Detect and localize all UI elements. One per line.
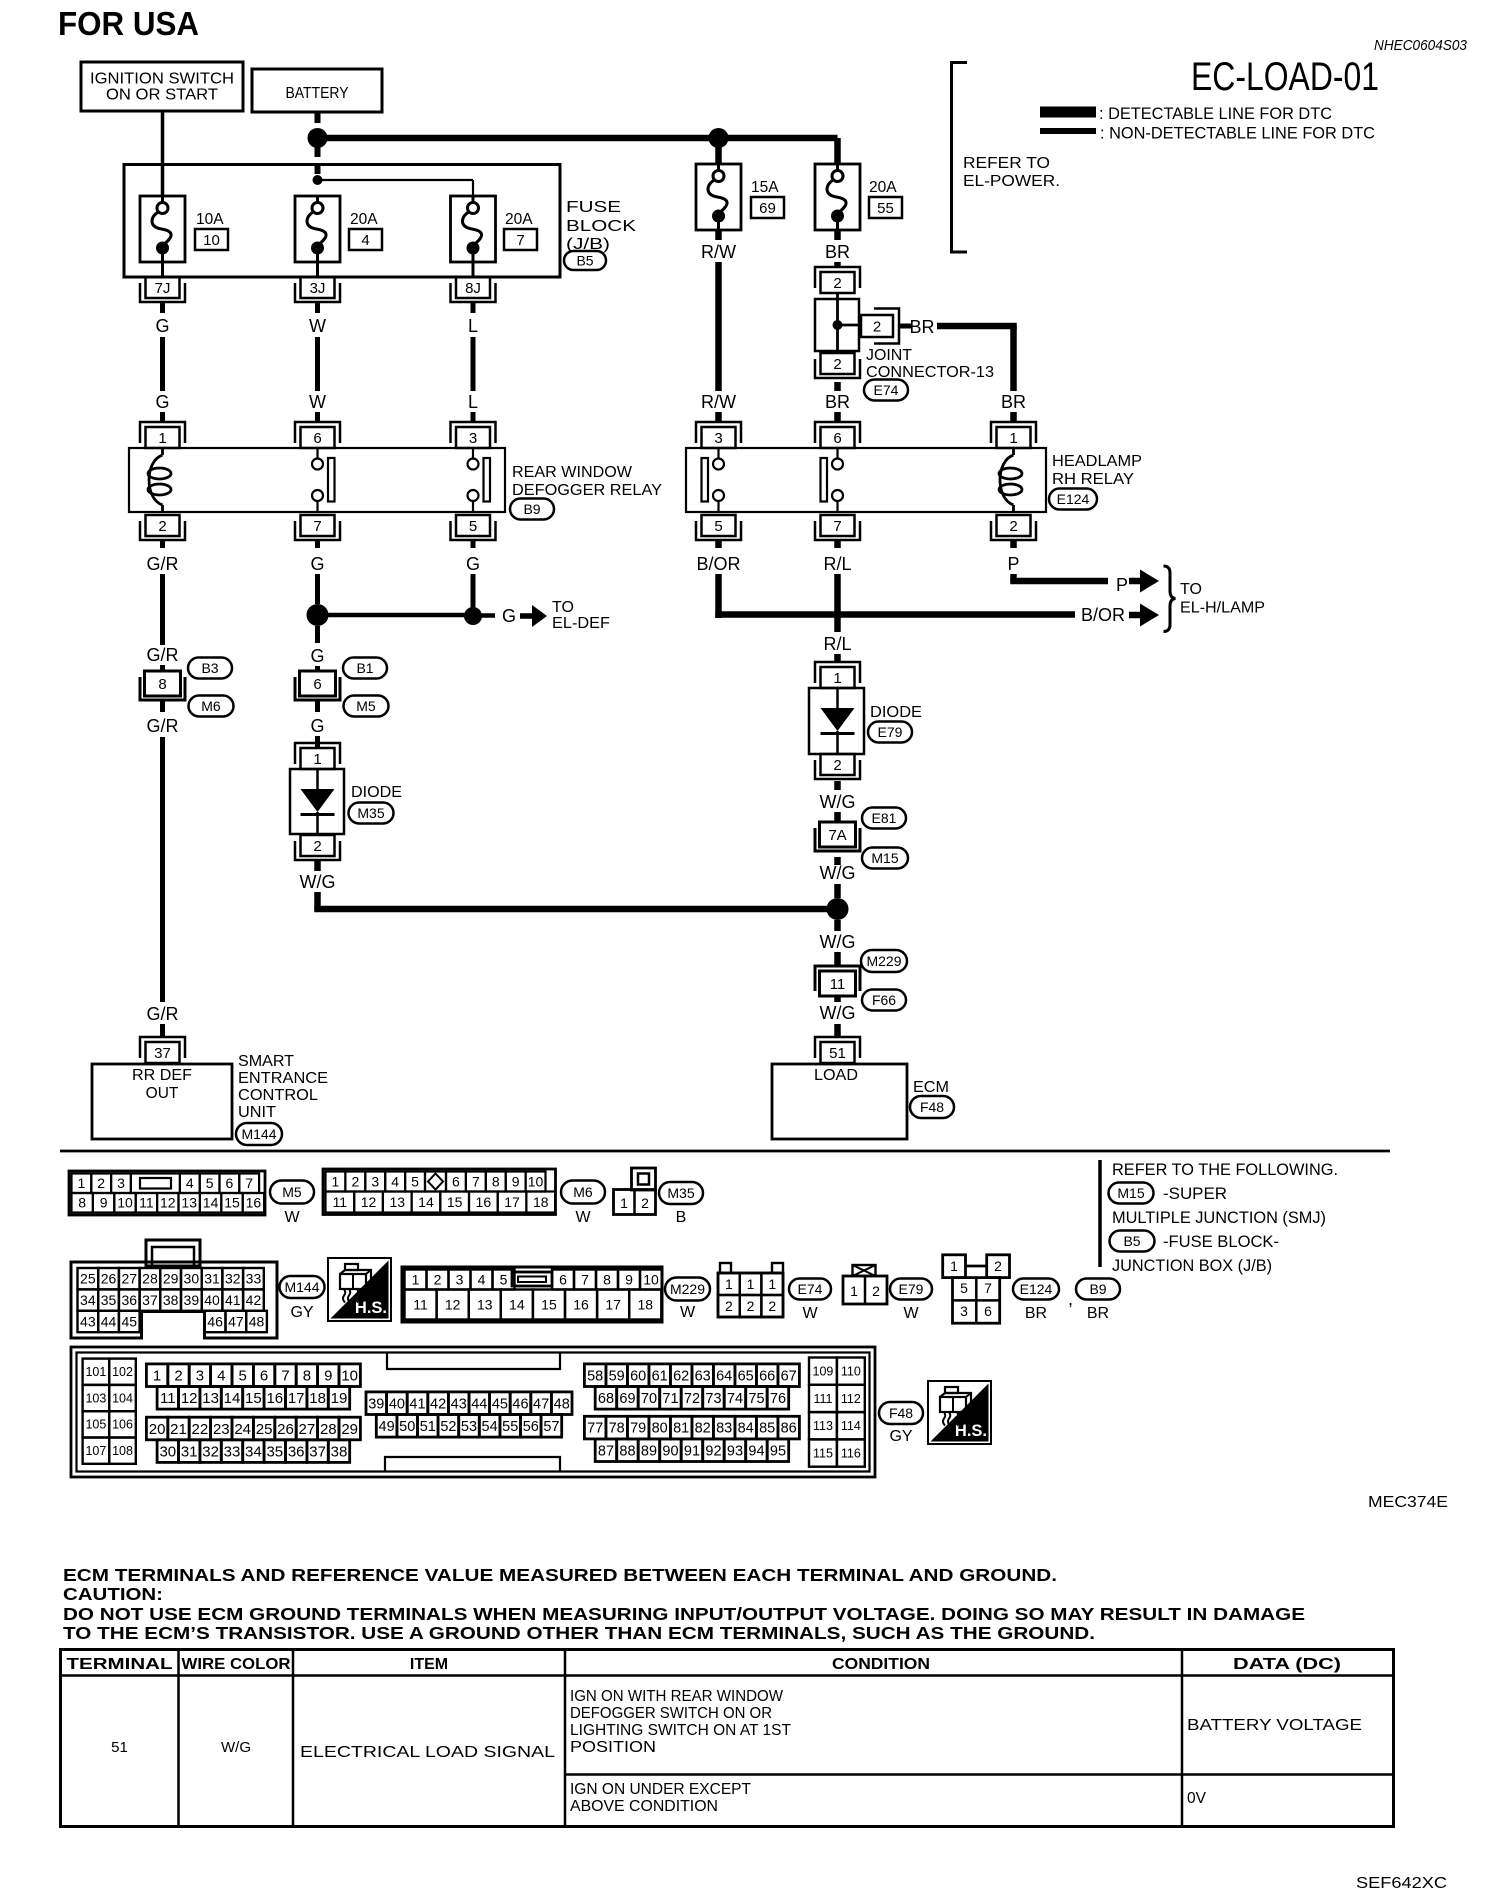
svg-text:46: 46 [207, 1313, 223, 1329]
connector oval F48 view [879, 1402, 923, 1424]
svg-text:TO: TO [552, 599, 574, 616]
svg-text:M35: M35 [357, 805, 384, 821]
svg-text:2: 2 [833, 356, 841, 373]
svg-text:38: 38 [331, 1443, 348, 1460]
connector oval B9 [510, 499, 554, 520]
svg-text:7: 7 [833, 518, 841, 535]
relay terminal 3 headlamp [702, 427, 736, 448]
svg-text:E124: E124 [1020, 1281, 1053, 1297]
connector oval M144 schematic [236, 1123, 282, 1145]
relay terminal 2 headlamp [997, 515, 1031, 536]
svg-text:W/G: W/G [820, 1003, 856, 1023]
svg-text:UNIT: UNIT [238, 1104, 276, 1121]
svg-text:3: 3 [469, 430, 477, 447]
svg-text:37: 37 [142, 1292, 158, 1308]
svg-text:G: G [310, 716, 324, 736]
svg-text:11: 11 [139, 1195, 154, 1211]
svg-text:5: 5 [960, 1280, 968, 1296]
svg-text:105: 105 [85, 1418, 106, 1432]
svg-text:67: 67 [781, 1368, 797, 1384]
svg-text:54: 54 [482, 1419, 498, 1435]
svg-text:68: 68 [598, 1391, 614, 1407]
wire B/OR horizontal to arrow [715, 611, 1075, 618]
svg-text:R/W: R/W [701, 242, 736, 262]
relay terminal 5 headlamp [702, 515, 736, 536]
svg-text:M144: M144 [241, 1126, 276, 1142]
junction node G left [307, 604, 329, 626]
svg-text:112: 112 [841, 1392, 861, 1406]
svg-text:10: 10 [528, 1173, 544, 1189]
svg-text:1: 1 [950, 1258, 958, 1274]
wire W/G from diode M35 [314, 861, 321, 871]
svg-text:ENTRANCE: ENTRANCE [238, 1070, 328, 1087]
wire P from relay pin2 [1010, 540, 1017, 548]
svg-text:EL-H/LAMP: EL-H/LAMP [1180, 600, 1265, 617]
connector oval E79 schematic [868, 722, 912, 743]
brace TO EL-H/LAMP [1164, 566, 1176, 632]
wire W/G below junction [834, 920, 841, 931]
svg-text:-FUSE BLOCK-: -FUSE BLOCK- [1163, 1232, 1279, 1251]
svg-text:,: , [1068, 1289, 1073, 1309]
connector 6 in-line [300, 671, 336, 696]
joint connector-13 terminal 2 bottom [821, 353, 855, 374]
svg-text:MULTIPLE JUNCTION (SMJ): MULTIPLE JUNCTION (SMJ) [1112, 1208, 1326, 1227]
svg-text:73: 73 [705, 1391, 721, 1407]
svg-text:BR: BR [1001, 392, 1026, 412]
relay terminal 7 headlamp [821, 515, 855, 536]
wire BR below joint connector [834, 382, 841, 391]
svg-text:2: 2 [768, 1298, 776, 1314]
svg-text:103: 103 [85, 1391, 106, 1405]
svg-text:M15: M15 [1117, 1185, 1144, 1201]
svg-text:12: 12 [181, 1390, 198, 1407]
arrow P to EL-H/LAMP [1129, 578, 1140, 585]
wire W/G to junction [834, 857, 841, 865]
svg-text:2: 2 [174, 1367, 182, 1384]
diode M35 terminal 1 [301, 748, 335, 769]
relay terminal 6 [301, 427, 335, 448]
svg-text:79: 79 [630, 1421, 646, 1437]
svg-text:B5: B5 [1123, 1233, 1140, 1249]
svg-text:17: 17 [504, 1194, 520, 1210]
svg-text:36: 36 [288, 1443, 305, 1460]
wire tap down to 15A fuse [715, 138, 722, 164]
svg-text:87: 87 [598, 1443, 614, 1459]
svg-text:15: 15 [541, 1296, 557, 1312]
svg-text:M6: M6 [573, 1184, 593, 1200]
svg-text:EL-DEF: EL-DEF [552, 615, 610, 632]
svg-text:7: 7 [581, 1271, 589, 1287]
svg-text:47: 47 [533, 1396, 549, 1412]
svg-text:19: 19 [331, 1390, 348, 1407]
svg-text:43: 43 [80, 1313, 96, 1329]
svg-text:61: 61 [652, 1368, 668, 1384]
svg-text:15: 15 [447, 1194, 463, 1210]
svg-text:11: 11 [830, 976, 846, 993]
svg-text:56: 56 [523, 1419, 539, 1435]
svg-text:POSITION: POSITION [570, 1739, 656, 1756]
wire G from fuse block [160, 302, 165, 313]
svg-text:1: 1 [747, 1276, 755, 1292]
svg-text:G: G [155, 316, 169, 336]
svg-text:6: 6 [984, 1303, 992, 1319]
svg-text:84: 84 [738, 1421, 754, 1437]
smart entrance control unit box [92, 1064, 232, 1139]
connector view E79 2-pin [843, 1276, 887, 1304]
svg-text:94: 94 [748, 1443, 764, 1459]
svg-text:3: 3 [371, 1173, 379, 1189]
svg-text:90: 90 [662, 1443, 678, 1459]
relay terminal 7 [301, 515, 335, 536]
svg-text:4: 4 [391, 1173, 399, 1189]
svg-text:2: 2 [872, 1283, 880, 1299]
svg-text:L: L [468, 392, 478, 412]
svg-text:9: 9 [512, 1173, 520, 1189]
svg-text:2: 2 [994, 1258, 1002, 1274]
svg-text:64: 64 [716, 1368, 732, 1384]
svg-text:BR: BR [825, 392, 850, 412]
svg-text:10: 10 [203, 232, 220, 249]
svg-text:59: 59 [609, 1368, 625, 1384]
output arrow TO EL-DEF [481, 613, 495, 618]
fuse block J/B box [124, 165, 560, 278]
svg-text:HEADLAMP: HEADLAMP [1052, 453, 1142, 470]
svg-text:REFER TO: REFER TO [963, 155, 1050, 172]
svg-text:14: 14 [509, 1296, 525, 1312]
svg-text:B3: B3 [201, 660, 218, 676]
svg-text:-SUPER: -SUPER [1163, 1184, 1227, 1203]
diode E79 terminal 2 [821, 754, 855, 775]
svg-text:24: 24 [234, 1421, 251, 1438]
svg-text:106: 106 [112, 1418, 133, 1432]
svg-text:47: 47 [228, 1313, 244, 1329]
svg-text:33: 33 [246, 1271, 262, 1287]
wire W/G trunk horizontal [314, 906, 837, 913]
separator line [60, 1150, 1390, 1153]
terminal 7J [146, 277, 180, 298]
svg-text:W: W [284, 1209, 300, 1226]
svg-text:REAR WINDOW: REAR WINDOW [512, 464, 633, 481]
svg-text:IGN ON WITH REAR WINDOW: IGN ON WITH REAR WINDOW [570, 1688, 783, 1705]
svg-text:3: 3 [117, 1175, 125, 1191]
svg-text:4: 4 [361, 232, 369, 249]
svg-text:B5: B5 [576, 252, 593, 268]
connector oval M229 schematic [861, 950, 907, 972]
svg-text:M35: M35 [667, 1185, 694, 1201]
connector oval B9 view [1076, 1279, 1120, 1300]
svg-text:55: 55 [502, 1419, 518, 1435]
svg-text:ABOVE CONDITION: ABOVE CONDITION [570, 1798, 718, 1815]
fuse 10A (10) [140, 196, 185, 262]
relay coil pin1 [161, 448, 164, 455]
box battery [252, 69, 382, 112]
svg-text:17: 17 [605, 1296, 621, 1312]
svg-text:39: 39 [368, 1396, 384, 1412]
svg-text:ECM: ECM [913, 1079, 949, 1096]
svg-text:8J: 8J [465, 280, 481, 297]
svg-text:51: 51 [829, 1045, 846, 1062]
svg-text:GY: GY [889, 1428, 912, 1445]
svg-text:G: G [502, 606, 516, 626]
svg-text:W: W [575, 1209, 591, 1226]
svg-text:85: 85 [759, 1421, 775, 1437]
svg-text:G: G [310, 646, 324, 666]
connector oval B3 [188, 658, 232, 679]
svg-text:ON OR START: ON OR START [106, 87, 219, 104]
svg-text:116: 116 [841, 1446, 861, 1460]
connector 8 in-line [145, 671, 181, 696]
svg-text:JOINT: JOINT [866, 347, 912, 364]
svg-text:8: 8 [78, 1195, 86, 1211]
joint connector-13 body [815, 299, 859, 351]
svg-text:39: 39 [184, 1292, 200, 1308]
svg-text:114: 114 [841, 1419, 861, 1433]
svg-text:3: 3 [456, 1271, 464, 1287]
connector view E124 [943, 1255, 966, 1278]
svg-text:38: 38 [163, 1292, 179, 1308]
wire G to connector 6 [315, 626, 320, 643]
svg-text:2: 2 [873, 319, 881, 336]
connector oval F48 schematic [910, 1096, 954, 1118]
svg-text:14: 14 [203, 1195, 219, 1211]
svg-text:3: 3 [196, 1367, 204, 1384]
svg-text:G: G [155, 392, 169, 412]
svg-text:WIRE COLOR: WIRE COLOR [182, 1656, 291, 1673]
H.S. logo 1 [328, 1258, 391, 1321]
relay terminal 2 [146, 515, 180, 536]
svg-text:G/R: G/R [146, 1004, 178, 1024]
svg-text:13: 13 [389, 1194, 405, 1210]
svg-text:12: 12 [361, 1194, 377, 1210]
svg-text:15A: 15A [751, 179, 779, 196]
svg-text:7A: 7A [828, 827, 846, 844]
svg-text:10: 10 [643, 1271, 659, 1287]
svg-text:81: 81 [673, 1421, 689, 1437]
connector oval E124 view [1013, 1279, 1059, 1300]
junction node G right [464, 607, 482, 625]
svg-text:13: 13 [181, 1195, 197, 1211]
svg-text:4: 4 [186, 1175, 194, 1191]
svg-text:DEFOGGER RELAY: DEFOGGER RELAY [512, 482, 662, 499]
svg-text:35: 35 [266, 1443, 283, 1460]
svg-text:58: 58 [587, 1368, 603, 1384]
svg-text:RH RELAY: RH RELAY [1052, 471, 1134, 488]
svg-text:G/R: G/R [146, 645, 178, 665]
svg-text:1: 1 [768, 1276, 776, 1292]
svg-text:30: 30 [159, 1443, 176, 1460]
svg-text:107: 107 [85, 1444, 106, 1458]
svg-text:7: 7 [281, 1367, 289, 1384]
svg-text:2: 2 [1009, 518, 1017, 535]
svg-text:6: 6 [833, 430, 841, 447]
svg-text:48: 48 [554, 1396, 570, 1412]
svg-text:1: 1 [725, 1276, 733, 1292]
H.S. logo 2 [928, 1381, 991, 1444]
wire battery trunk to fuses [318, 135, 838, 142]
svg-text:EC-LOAD-01: EC-LOAD-01 [1191, 55, 1379, 99]
svg-text:BATTERY VOLTAGE: BATTERY VOLTAGE [1187, 1717, 1362, 1734]
svg-text:72: 72 [684, 1391, 700, 1407]
wire W/G to ECM [834, 996, 841, 1002]
svg-text:SEF642XC: SEF642XC [1356, 1875, 1447, 1892]
svg-text:16: 16 [573, 1296, 589, 1312]
svg-text:SMART: SMART [238, 1053, 294, 1070]
svg-text:10: 10 [117, 1195, 133, 1211]
svg-text:80: 80 [652, 1421, 668, 1437]
wire P horizontal to arrow [1010, 578, 1108, 585]
svg-text:1: 1 [833, 670, 841, 687]
diode E79 body [809, 688, 864, 754]
svg-text:6: 6 [226, 1175, 234, 1191]
connector view M35 2-pin [614, 1190, 656, 1215]
svg-text:H.S.: H.S. [955, 1422, 987, 1440]
svg-text:95: 95 [770, 1443, 786, 1459]
svg-text:37: 37 [309, 1443, 326, 1460]
svg-text:110: 110 [841, 1365, 861, 1379]
svg-text:B/OR: B/OR [1081, 605, 1125, 625]
connector oval F66 [862, 990, 906, 1011]
svg-text:13: 13 [202, 1390, 219, 1407]
svg-text:34: 34 [245, 1443, 262, 1460]
relay terminal 5 [456, 515, 490, 536]
svg-text:H.S.: H.S. [355, 1299, 387, 1317]
diode M35 body [290, 769, 344, 834]
svg-text:LIGHTING SWITCH ON AT 1ST: LIGHTING SWITCH ON AT 1ST [570, 1722, 792, 1739]
svg-text:W/G: W/G [820, 792, 856, 812]
svg-text:E81: E81 [872, 810, 897, 826]
svg-text:2: 2 [725, 1298, 733, 1314]
svg-text:: DETECTABLE LINE FOR DTC: : DETECTABLE LINE FOR DTC [1099, 104, 1332, 123]
connector 7A in-line [820, 822, 856, 847]
svg-text:TERMINAL: TERMINAL [67, 1656, 173, 1673]
svg-text:7: 7 [472, 1173, 480, 1189]
svg-text:26: 26 [101, 1271, 117, 1287]
svg-text:31: 31 [181, 1443, 198, 1460]
svg-text:12: 12 [160, 1195, 176, 1211]
svg-text:B1: B1 [356, 660, 373, 676]
fuse 20A (7) [451, 196, 496, 262]
svg-text:W/G: W/G [820, 932, 856, 952]
svg-text:1: 1 [412, 1271, 420, 1287]
svg-text:45: 45 [121, 1313, 137, 1329]
svg-text:9: 9 [324, 1367, 332, 1384]
svg-text:W/G: W/G [300, 872, 336, 892]
svg-text:CAUTION:: CAUTION: [63, 1584, 163, 1604]
svg-text:M229: M229 [866, 953, 901, 969]
svg-text:M6: M6 [201, 698, 221, 714]
svg-text:1: 1 [850, 1283, 858, 1299]
terminal 3J [301, 277, 335, 298]
svg-text:10: 10 [341, 1367, 358, 1384]
svg-text:74: 74 [727, 1391, 743, 1407]
svg-text:113: 113 [813, 1419, 833, 1433]
svg-text:5: 5 [206, 1175, 214, 1191]
svg-text:DIODE: DIODE [870, 704, 922, 721]
svg-text:4: 4 [217, 1367, 225, 1384]
svg-text:18: 18 [637, 1296, 653, 1312]
box ignition switch [81, 62, 243, 111]
svg-text:14: 14 [224, 1390, 241, 1407]
svg-text:102: 102 [112, 1365, 133, 1379]
svg-text:69: 69 [759, 200, 776, 217]
relay terminal 1 headlamp [997, 427, 1031, 448]
svg-text:45: 45 [492, 1396, 508, 1412]
svg-text:: NON-DETECTABLE LINE FOR DTC: : NON-DETECTABLE LINE FOR DTC [1100, 124, 1375, 143]
svg-text:2: 2 [97, 1175, 105, 1191]
connector oval M35 schematic [349, 803, 394, 824]
connector oval E81 [862, 808, 906, 829]
junction node battery [308, 128, 328, 148]
svg-text:5: 5 [411, 1173, 419, 1189]
svg-text:M5: M5 [356, 698, 376, 714]
connector view M229 18-pin [402, 1267, 662, 1322]
svg-text:6: 6 [452, 1173, 460, 1189]
wire stub below connector 8 [160, 701, 165, 712]
legend non-detectable line [1040, 128, 1096, 134]
connector oval M5 view [270, 1181, 314, 1204]
svg-text:M144: M144 [284, 1279, 319, 1295]
svg-text:LOAD: LOAD [814, 1067, 858, 1084]
svg-text:9: 9 [100, 1195, 108, 1211]
svg-text:8: 8 [158, 676, 166, 693]
svg-text:2: 2 [434, 1271, 442, 1287]
connector oval B1 [343, 658, 387, 679]
svg-text:18: 18 [533, 1194, 549, 1210]
connector oval M35 view [659, 1182, 703, 1204]
note REFER TO EL-POWER with bracket [952, 63, 968, 253]
connector oval E74 [864, 380, 908, 401]
svg-text:1: 1 [158, 430, 166, 447]
legend detectable line [1040, 107, 1096, 118]
relay coil pin1 headlamp [1012, 448, 1015, 455]
svg-text:GY: GY [290, 1304, 313, 1321]
svg-text:78: 78 [609, 1421, 625, 1437]
svg-text:F48: F48 [889, 1405, 913, 1421]
svg-text:B9: B9 [523, 501, 540, 517]
svg-text:36: 36 [121, 1292, 137, 1308]
svg-text:3: 3 [960, 1303, 968, 1319]
svg-text:27: 27 [299, 1421, 316, 1438]
svg-text:32: 32 [202, 1443, 219, 1460]
svg-text:41: 41 [409, 1396, 425, 1412]
svg-text:2: 2 [351, 1173, 359, 1189]
svg-text:M229: M229 [670, 1281, 705, 1297]
svg-text:BR: BR [909, 317, 934, 337]
svg-text:3: 3 [714, 430, 722, 447]
svg-text:52: 52 [440, 1419, 456, 1435]
svg-text:2: 2 [313, 838, 321, 855]
headlamp RH relay box [686, 448, 1046, 512]
wire BR branch from joint connector [899, 324, 911, 329]
relay contact pin3 [472, 448, 474, 459]
wire stub below connector 6 [315, 701, 320, 712]
svg-text:18: 18 [309, 1390, 326, 1407]
svg-text:BR: BR [1025, 1305, 1047, 1322]
svg-text:70: 70 [641, 1391, 657, 1407]
svg-text:15: 15 [224, 1195, 240, 1211]
wire battery feed dashed [315, 112, 321, 180]
svg-text:IGNITION SWITCH: IGNITION SWITCH [90, 71, 234, 88]
svg-text:P: P [1007, 554, 1019, 574]
svg-text:M5: M5 [282, 1184, 302, 1200]
svg-text:6: 6 [559, 1271, 567, 1287]
svg-text:92: 92 [705, 1443, 721, 1459]
fuse 20A (4) [295, 196, 340, 262]
svg-text:DEFOGGER SWITCH ON OR: DEFOGGER SWITCH ON OR [570, 1705, 772, 1722]
svg-text:8: 8 [603, 1271, 611, 1287]
svg-text:40: 40 [389, 1396, 405, 1412]
svg-text:ELECTRICAL LOAD SIGNAL: ELECTRICAL LOAD SIGNAL [300, 1744, 555, 1761]
